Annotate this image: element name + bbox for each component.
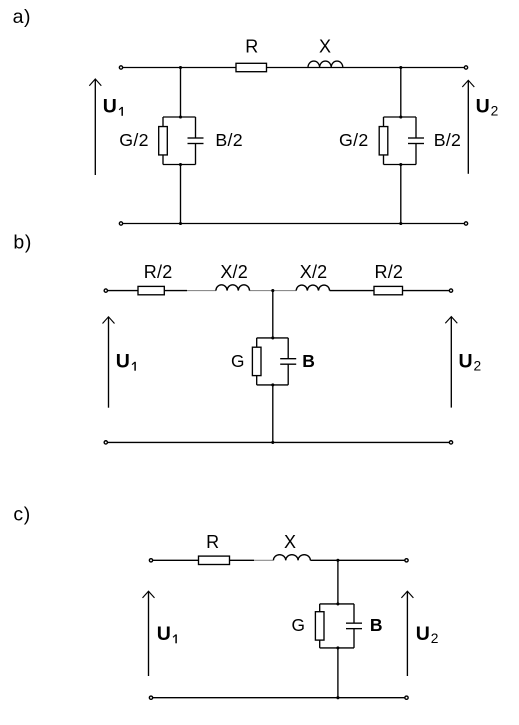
svg-text:2: 2 xyxy=(491,104,499,119)
svg-text:U: U xyxy=(103,96,117,118)
svg-text:2: 2 xyxy=(431,631,439,646)
svg-text:B/2: B/2 xyxy=(215,130,243,150)
svg-text:G/2: G/2 xyxy=(339,130,369,150)
svg-text:G/2: G/2 xyxy=(119,130,149,150)
svg-text:R/2: R/2 xyxy=(375,262,404,282)
svg-text:U: U xyxy=(157,623,171,645)
svg-text:b): b) xyxy=(13,232,32,254)
svg-text:G: G xyxy=(292,615,305,635)
svg-text:a): a) xyxy=(13,6,32,28)
svg-text:X/2: X/2 xyxy=(300,262,328,282)
svg-text:2: 2 xyxy=(474,359,482,374)
svg-text:G: G xyxy=(231,351,244,371)
svg-text:B: B xyxy=(302,351,315,371)
svg-text:X/2: X/2 xyxy=(220,262,248,282)
svg-text:U: U xyxy=(459,350,473,372)
svg-text:U: U xyxy=(116,350,130,372)
svg-text:X: X xyxy=(319,37,331,57)
svg-text:R/2: R/2 xyxy=(144,262,173,282)
svg-text:U: U xyxy=(476,96,490,118)
svg-text:R: R xyxy=(206,532,219,552)
svg-text:R: R xyxy=(245,37,258,57)
svg-text:B/2: B/2 xyxy=(434,130,462,150)
svg-text:X: X xyxy=(284,532,296,552)
svg-text:B: B xyxy=(370,615,383,635)
svg-text:c): c) xyxy=(13,503,30,525)
svg-text:U: U xyxy=(416,623,430,645)
